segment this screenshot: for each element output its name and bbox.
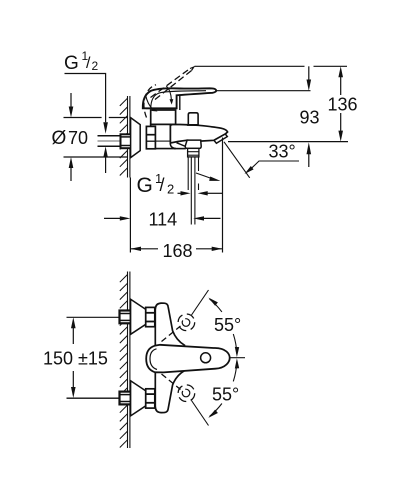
- svg-text:2: 2: [167, 182, 174, 197]
- centerline right: [230, 357, 246, 359]
- ref line raised handle top: [195, 65, 305, 67]
- svg-text:150 ±15: 150 ±15: [43, 349, 108, 369]
- dim 136 line: [340, 72, 342, 95]
- dim 168 line: [130, 248, 158, 250]
- arc 55 top: [210, 299, 222, 312]
- dashed raised handle edge 1: [151, 69, 191, 98]
- dim 93 bottom arrow: [308, 154, 310, 167]
- rotation arc arrow A: [166, 86, 171, 100]
- rotation arc arrow B: [146, 95, 154, 110]
- dim Ø70 arrow bottom: [70, 167, 72, 181]
- 33 degree slant line: [224, 142, 250, 178]
- body bottom edge: [174, 148, 186, 150]
- dashed raised handle butt: [144, 85, 156, 118]
- body lower housing: [151, 124, 176, 148]
- curved arrow under spout: [196, 173, 212, 179]
- dashed lever centerline top: [162, 326, 181, 342]
- dashed knob circle top: [178, 314, 195, 331]
- svg-text:G: G: [137, 174, 153, 197]
- handle solid: [143, 88, 216, 108]
- ext line spout tip: [222, 138, 224, 253]
- knob hole top: [182, 319, 190, 327]
- body bottom view: [155, 303, 184, 413]
- body internal line: [155, 140, 170, 142]
- svg-text:2: 2: [92, 59, 99, 73]
- lever bottom view: [146, 345, 230, 373]
- aerator: [214, 134, 227, 143]
- ref line handle tip: [217, 90, 311, 92]
- dim 114 right arrow: [203, 217, 221, 219]
- 33 degree leader underline: [250, 161, 299, 170]
- diverter knob: [188, 113, 198, 125]
- union nut: [146, 126, 155, 148]
- handle neck edge: [179, 95, 181, 110]
- dim 93 top arrow: [308, 66, 310, 80]
- dashed raised handle edge 2: [155, 71, 192, 100]
- label G1/2 middle: [137, 171, 175, 197]
- spout body: [170, 125, 227, 144]
- svg-text:/: /: [86, 55, 91, 72]
- handle base line: [146, 107, 177, 109]
- svg-text:/: /: [160, 175, 165, 195]
- svg-text:55°: 55°: [214, 315, 241, 335]
- dim 150 ext line bottom: [67, 397, 120, 399]
- arrow G1/2 down: [103, 122, 108, 134]
- leader under G1/2: [65, 74, 106, 123]
- dim 150 line: [72, 327, 74, 345]
- svg-text:33°: 33°: [269, 142, 296, 162]
- outlet pipe: [188, 157, 198, 225]
- pipe stub behind wall: [98, 136, 122, 147]
- ref line spout outlet: [228, 141, 348, 143]
- knob hole bottom: [182, 389, 190, 397]
- flange cone top: [131, 299, 146, 334]
- union nut bottom: [146, 389, 155, 408]
- ext line wall bottom: [129, 178, 131, 253]
- wall hatch bottom view: [128, 272, 130, 449]
- solid 55 ray top: [192, 290, 209, 315]
- arc 55 bottom: [233, 362, 237, 382]
- svg-text:G: G: [64, 53, 79, 74]
- dim 114 left arrow: [104, 217, 120, 219]
- arrow G1/2 up (pipe bottom): [105, 157, 107, 173]
- handle inner line: [151, 91, 206, 108]
- dim G1/2 right arrow: [206, 192, 222, 194]
- raised handle tip cap: [190, 67, 194, 71]
- lever hole: [201, 353, 211, 363]
- hex nut behind wall: [121, 134, 132, 148]
- dim 150 ext line top: [67, 316, 120, 318]
- flange cone bottom: [131, 381, 146, 416]
- wall hatch top view: [128, 96, 130, 178]
- lever inner arc: [150, 349, 157, 370]
- svg-text:93: 93: [300, 108, 320, 128]
- flange cone: [131, 118, 141, 158]
- svg-text:70: 70: [68, 128, 88, 148]
- dim G1/2 left arrow: [178, 192, 182, 194]
- dim Ø70 extension line top: [64, 117, 102, 119]
- dim Ø70 extension line bottom: [64, 156, 128, 158]
- svg-text:Ø: Ø: [52, 128, 67, 149]
- dashed lever centerline bottom: [162, 374, 181, 390]
- hex nut bottom behind wall: [120, 392, 131, 405]
- svg-text:168: 168: [163, 241, 193, 261]
- body upper housing: [151, 110, 176, 124]
- spout underside edge: [177, 143, 186, 147]
- union nut top: [146, 307, 155, 326]
- dim Ø70 arrow top: [70, 93, 72, 107]
- label G1/2 top-left: [64, 49, 99, 74]
- dashed knob circle bottom: [178, 385, 195, 402]
- svg-text:114: 114: [149, 210, 178, 230]
- shower outlet: [185, 140, 201, 148]
- svg-text:136: 136: [328, 95, 358, 115]
- hex nut top behind wall: [120, 311, 131, 324]
- solid 55 ray bottom: [192, 401, 209, 426]
- svg-text:55°: 55°: [212, 385, 239, 405]
